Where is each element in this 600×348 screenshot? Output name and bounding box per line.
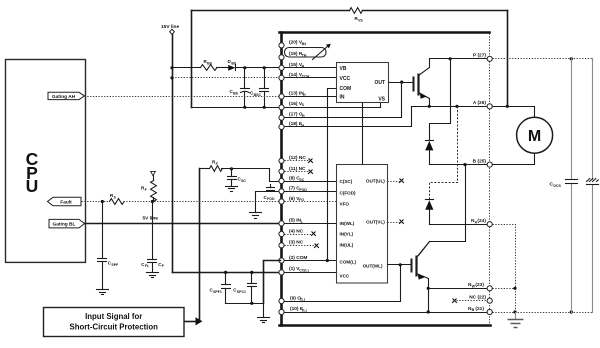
Input Signal for Short-Circuit Protection box bbox=[44, 308, 185, 337]
pin 16 VS bbox=[279, 101, 305, 110]
pin 20 VB4 bbox=[279, 40, 306, 48]
op-amp LVIC driver box bbox=[337, 165, 388, 284]
wire cap bottoms to COM ground bbox=[226, 303, 264, 305]
wire VS loop down to A bbox=[507, 11, 509, 107]
wire pin8 CSC to box bbox=[285, 181, 337, 183]
node Gating BL tag bbox=[49, 219, 85, 228]
node fault junction RF bbox=[151, 200, 154, 203]
svg-text:IN: IN bbox=[340, 94, 345, 100]
pin 7 CFOD bbox=[279, 186, 307, 194]
wire pin7 CFOD to box bbox=[285, 191, 337, 193]
svg-text:(L): (L) bbox=[302, 308, 306, 312]
svg-text:Short-Circuit Protection: Short-Circuit Protection bbox=[70, 323, 159, 332]
node COM junction bbox=[326, 259, 329, 262]
wire pin1 VCCL to box bbox=[285, 272, 337, 274]
node B junction collector bbox=[463, 163, 466, 166]
pin 3 NC bbox=[279, 240, 304, 248]
pin 8 CSC bbox=[279, 175, 305, 183]
svg-text:(13) IN: (13) IN bbox=[289, 90, 304, 96]
pin 2 COM bbox=[279, 255, 307, 263]
pin 23 NW bbox=[468, 282, 492, 291]
svg-text:OUT(WL): OUT(WL) bbox=[363, 263, 383, 268]
svg-text:CCH: CCH bbox=[302, 75, 310, 79]
CPU block bbox=[6, 60, 86, 263]
svg-text:15V line: 15V line bbox=[161, 24, 179, 30]
wire NW exterior bbox=[493, 288, 516, 290]
wire NC pin4 stub bbox=[285, 232, 316, 236]
node P junction bbox=[449, 57, 452, 60]
wire VCC pin14 to box bbox=[285, 77, 337, 79]
node 15V junction CSPF1 bbox=[224, 271, 227, 274]
wire ground stub bbox=[515, 313, 517, 319]
svg-text:OUT(VL): OUT(VL) bbox=[366, 220, 385, 225]
svg-text:BS: BS bbox=[207, 61, 213, 65]
wire pin9 OL route bbox=[285, 265, 401, 302]
svg-text:VS: VS bbox=[358, 19, 363, 23]
pin 1 VCCL bbox=[279, 266, 309, 275]
node VB junction CBSC bbox=[263, 66, 266, 69]
ground CFL bbox=[147, 273, 159, 278]
thermistor capsule pin 19 bbox=[285, 44, 331, 60]
wire input-signal arrow bbox=[185, 317, 203, 325]
node 15V line terminal bbox=[161, 24, 179, 35]
pin 11 NC bbox=[279, 166, 306, 174]
wire B to Q2 collector bbox=[419, 165, 466, 256]
svg-text:P (27): P (27) bbox=[473, 53, 486, 59]
capacitor CBSC bbox=[250, 68, 269, 108]
wire VB supply line bbox=[173, 67, 201, 69]
wire fault line (left part) bbox=[82, 201, 110, 203]
capacitor CBS bbox=[230, 68, 250, 108]
wire VS loop up bbox=[191, 11, 193, 108]
transistor Q2 low-side IGBT bbox=[412, 242, 430, 313]
svg-text:OUT(UL): OUT(UL) bbox=[366, 179, 385, 184]
module outline right edge bbox=[489, 34, 491, 326]
node VB junction CBS bbox=[243, 66, 246, 69]
svg-text:VCC: VCC bbox=[340, 76, 351, 82]
svg-text:SPF1: SPF1 bbox=[213, 290, 222, 294]
svg-text:COM(L): COM(L) bbox=[340, 260, 357, 265]
pin 26 A bbox=[473, 100, 492, 109]
node Gating AH tag bbox=[48, 92, 85, 100]
capacitor CFL CF bbox=[141, 202, 165, 272]
diode D2 freewheel bbox=[425, 200, 433, 225]
svg-text:COM: COM bbox=[340, 86, 352, 92]
wire NC pin12 stub bbox=[285, 159, 313, 163]
ground CSPF bbox=[97, 290, 109, 295]
wire pin18 EH to A bbox=[285, 107, 412, 127]
svg-text:(4) NC: (4) NC bbox=[289, 228, 304, 234]
svg-text:VS: VS bbox=[378, 96, 385, 102]
svg-text:(21): (21) bbox=[475, 306, 484, 312]
svg-text:SC: SC bbox=[241, 179, 246, 183]
svg-text:(17) O: (17) O bbox=[289, 111, 303, 117]
svg-text:A (26): A (26) bbox=[473, 100, 487, 106]
wire VCC(H) line pin14 bbox=[173, 77, 280, 79]
capacitor electrolytic DC bus bbox=[587, 59, 599, 313]
svg-text:SPF: SPF bbox=[111, 263, 119, 267]
capacitor CSPF bbox=[98, 202, 120, 289]
wire CSC jog to pin 8 bbox=[270, 169, 281, 182]
ground CFOD bbox=[250, 213, 262, 219]
wire OUT to gate Q1 bbox=[389, 82, 413, 84]
node VS junction CBSC bbox=[263, 106, 266, 109]
wire 15V vertical rail bbox=[172, 35, 174, 273]
svg-text:(L): (L) bbox=[300, 298, 304, 302]
node P junction CDCS bbox=[570, 57, 573, 60]
node VS junction CBS bbox=[243, 106, 246, 109]
resistor RBS bbox=[201, 59, 218, 71]
wire A line interior bbox=[412, 106, 488, 108]
wire VS loop top (left of RVS) bbox=[192, 10, 350, 12]
pin 22 NC bbox=[469, 295, 492, 304]
node CSC junction bbox=[230, 167, 233, 170]
svg-text:C(FOD): C(FOD) bbox=[340, 190, 357, 195]
wire interbox vertical bbox=[362, 103, 364, 165]
svg-text:(23): (23) bbox=[475, 282, 484, 288]
ground CSC bbox=[226, 187, 238, 192]
svg-text:(11) NC: (11) NC bbox=[289, 166, 306, 172]
module outline left edge bbox=[280, 33, 283, 326]
node Fault tag bbox=[48, 197, 82, 205]
wire VB pin15 to box bbox=[285, 67, 337, 69]
node A junction sense bbox=[455, 105, 458, 108]
wire P to diode D1 bbox=[430, 59, 451, 140]
transistor Q1 high-side IGBT bbox=[414, 59, 430, 107]
pin 21 NB bbox=[468, 306, 492, 315]
pin 27 P bbox=[473, 53, 492, 62]
resistor RS bbox=[110, 193, 125, 204]
wire VS line pin16 bbox=[192, 107, 381, 109]
wire NA exterior bbox=[493, 225, 516, 313]
svg-text:(12) NC: (12) NC bbox=[289, 155, 306, 161]
svg-text:IN(UL): IN(UL) bbox=[340, 242, 354, 247]
pin 17 OH bbox=[279, 111, 305, 120]
node NB junction emitter bbox=[427, 310, 430, 313]
pin 19 RTH bbox=[279, 51, 307, 60]
svg-text:TH: TH bbox=[302, 54, 307, 58]
ground COM bbox=[258, 318, 270, 323]
svg-text:FOD: FOD bbox=[299, 188, 307, 192]
wire COM exterior to ground bbox=[264, 261, 281, 304]
pin 15 VB bbox=[279, 62, 305, 70]
pin 9 OL bbox=[279, 295, 305, 303]
module outline top edge bbox=[280, 31, 490, 34]
svg-text:(24): (24) bbox=[477, 218, 486, 224]
node A junction VS loop bbox=[506, 105, 509, 108]
pin 24 NA bbox=[471, 218, 492, 227]
svg-text:(19) R: (19) R bbox=[289, 51, 303, 57]
wire pin17 OH to OUT node bbox=[285, 83, 402, 118]
wire P line interior bbox=[430, 58, 488, 60]
svg-text:SPC1: SPC1 bbox=[237, 290, 246, 294]
node A junction emitter bbox=[428, 105, 431, 108]
svg-text:M: M bbox=[528, 128, 541, 145]
pin 25 B bbox=[473, 158, 493, 167]
resistor RVS bbox=[350, 8, 364, 23]
pin 13 INH bbox=[279, 90, 306, 99]
wire NC pin22 stub bbox=[452, 299, 487, 303]
svg-text:B (25): B (25) bbox=[473, 158, 487, 164]
wire OUT(WL) to gate Q2 bbox=[388, 264, 411, 266]
diode D1 freewheel bbox=[425, 141, 433, 165]
capacitor CFOD bbox=[264, 185, 275, 202]
node 15V junction RBS bbox=[170, 66, 173, 69]
capacitor CSC bbox=[228, 169, 247, 186]
svg-text:VCC: VCC bbox=[340, 274, 350, 279]
svg-text:FOD: FOD bbox=[267, 197, 275, 201]
wire pin2 COM to box bbox=[285, 260, 337, 262]
node 15V junction VCCH bbox=[170, 76, 173, 79]
5V supply arrow bbox=[151, 171, 156, 175]
wire VS pin into box bbox=[380, 103, 382, 108]
svg-text:Input Signal for: Input Signal for bbox=[85, 312, 142, 321]
module outline bottom edge bbox=[280, 324, 491, 327]
svg-text:U: U bbox=[26, 176, 39, 196]
wire COM ground stub bbox=[263, 304, 265, 317]
svg-text:FO: FO bbox=[299, 198, 304, 202]
wire NC pin11 stub bbox=[285, 170, 313, 174]
node NB junction CDCS bbox=[570, 310, 573, 313]
node 15V junction CSPC1 bbox=[250, 271, 253, 274]
pin 4 NC bbox=[279, 228, 304, 236]
node NB junction ground bbox=[513, 310, 516, 313]
op-amp HVIC driver box bbox=[337, 63, 389, 103]
svg-text:NC (22): NC (22) bbox=[469, 295, 486, 301]
wire 15V to VCC(L) pin 1 bbox=[173, 272, 281, 274]
svg-text:CC(L): CC(L) bbox=[299, 269, 309, 273]
wire CSC net bbox=[200, 168, 210, 170]
node NW junction bbox=[513, 287, 516, 290]
wire OUT(VL) stub bbox=[388, 220, 404, 224]
wire 5V line / Gating BL to IN(L) bbox=[85, 223, 281, 225]
wire NW line interior bbox=[429, 288, 488, 290]
pin 6 VFO bbox=[279, 196, 304, 204]
capacitor CDCS bbox=[550, 59, 578, 313]
wire pin6 VFO to box bbox=[285, 201, 337, 203]
svg-text:C(SC): C(SC) bbox=[340, 179, 353, 184]
wire pin5 INL to box bbox=[285, 223, 337, 225]
svg-text:VFO: VFO bbox=[340, 202, 350, 207]
wire Gating AH to IN(H) pin13 bbox=[85, 96, 280, 98]
svg-text:BSC: BSC bbox=[254, 93, 262, 97]
wire A exterior to motor bbox=[493, 107, 535, 118]
svg-text:(3) NC: (3) NC bbox=[289, 240, 304, 246]
svg-text:Gating BL: Gating BL bbox=[53, 222, 76, 228]
wire short-circuit injection vertical bbox=[199, 169, 201, 322]
svg-text:BS: BS bbox=[233, 92, 239, 96]
node fault junction CSPF bbox=[101, 200, 104, 203]
pin 5 INL bbox=[279, 217, 304, 226]
pin 14 VCCH bbox=[279, 72, 310, 80]
wire VS loop top (right of RVS) bbox=[363, 10, 508, 12]
svg-text:(2) COM: (2) COM bbox=[289, 255, 307, 261]
resistor RF (CSC filter) bbox=[210, 159, 223, 171]
node NW junction emitter bbox=[427, 287, 430, 290]
ground DC bus bbox=[508, 320, 524, 328]
wire fault line (right part to pin6) bbox=[124, 201, 280, 203]
wire P exterior bbox=[493, 58, 593, 60]
capacitor CSPC1 bbox=[233, 273, 256, 304]
capacitor CSPF1 bbox=[210, 273, 231, 304]
svg-text:B4: B4 bbox=[302, 42, 307, 46]
wire COM(H) vertical bbox=[328, 89, 337, 261]
wire NB exterior bbox=[493, 312, 593, 314]
resistor RF pull-up bbox=[141, 176, 156, 202]
svg-text:5V line: 5V line bbox=[143, 216, 159, 222]
diode DBS bbox=[228, 59, 237, 71]
wire A to diode D2 (dashed) bbox=[430, 107, 458, 200]
svg-text:DCS: DCS bbox=[553, 184, 561, 188]
svg-text:Gating AH: Gating AH bbox=[52, 94, 76, 100]
node ground junction bbox=[250, 302, 253, 305]
pin 10 EL bbox=[279, 306, 307, 315]
wire B exterior to motor bbox=[493, 154, 535, 165]
svg-text:SC: SC bbox=[299, 178, 304, 182]
pin 18 EH bbox=[279, 121, 305, 130]
svg-text:OUT: OUT bbox=[374, 80, 385, 86]
wire pin7 to ground bbox=[256, 192, 281, 213]
wire NA line interior bbox=[430, 224, 488, 226]
node OUT junction OH bbox=[400, 81, 403, 84]
svg-text:VB: VB bbox=[340, 66, 347, 72]
wire EL NB line bbox=[285, 312, 488, 314]
wire B line interior bbox=[430, 164, 488, 166]
svg-text:BS: BS bbox=[231, 61, 237, 65]
node OUT(WL) junction OL bbox=[399, 263, 402, 266]
svg-text:Fault: Fault bbox=[60, 200, 72, 206]
wire NC pin3 stub bbox=[285, 244, 319, 248]
svg-text:IN(WL): IN(WL) bbox=[340, 221, 355, 226]
motor M bbox=[517, 117, 553, 153]
pin 12 NC bbox=[279, 155, 306, 163]
svg-text:IN(VL): IN(VL) bbox=[340, 232, 354, 237]
wire OUT(UL) stub bbox=[388, 179, 404, 183]
wire IN pin13 to box bbox=[285, 96, 337, 98]
